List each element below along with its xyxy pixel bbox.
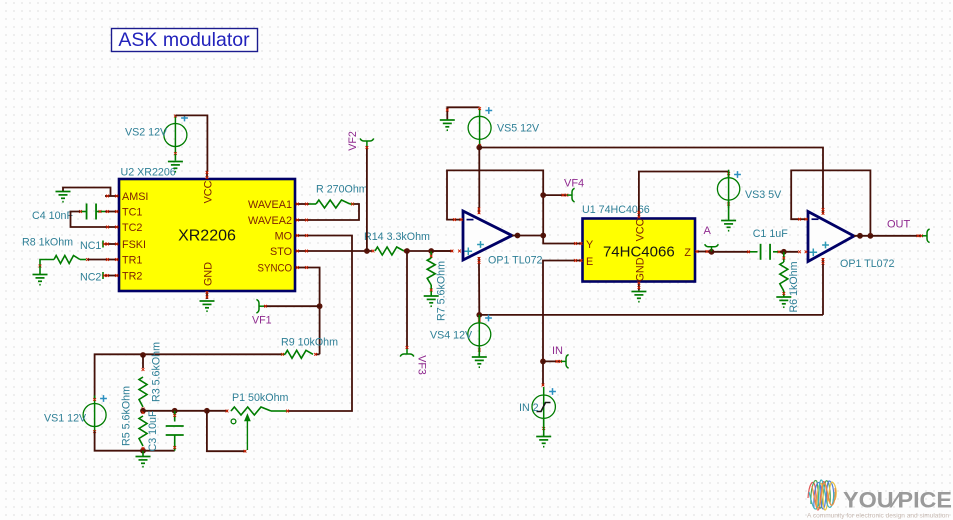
ground VS4 <box>472 357 487 367</box>
wire STO <box>309 250 372 252</box>
svg-text:Y: Y <box>586 239 593 251</box>
svg-text:VCC: VCC <box>203 180 215 203</box>
wire top rail to VS1 <box>95 354 143 399</box>
svg-text:TC2: TC2 <box>122 222 142 234</box>
wire opamp1 vee down <box>478 264 480 315</box>
probe IN <box>561 355 569 369</box>
wire VS5 gnd link <box>447 107 479 119</box>
svg-text:R6 1kOhm: R6 1kOhm <box>788 261 800 312</box>
wire OUT <box>870 235 921 237</box>
wire WAVEA1 to WAVEA2 <box>309 204 359 220</box>
probe VF4 <box>567 188 575 202</box>
resistor R6 <box>780 262 788 291</box>
plus VS4 <box>485 315 492 322</box>
wire R8 left to ground <box>40 260 54 267</box>
probe VF1 <box>256 299 264 313</box>
opamp2 vee pin <box>822 258 824 265</box>
svg-text:VF1: VF1 <box>252 315 272 327</box>
wire AMSI to ground <box>63 188 111 197</box>
wire R6 top lead <box>783 252 785 262</box>
svg-text:WAVEA1: WAVEA1 <box>248 199 292 211</box>
opamp2 minus stub <box>798 218 808 220</box>
node R7 top <box>428 248 434 254</box>
node opamp2 out <box>868 233 874 239</box>
wire C4 left to TC2 <box>80 211 87 213</box>
pin TC1 stub <box>105 211 119 213</box>
node VS5 out <box>476 145 482 151</box>
wire C4 right lead <box>96 211 105 213</box>
wire Z to C1 <box>712 251 751 253</box>
svg-text:GND: GND <box>634 257 646 281</box>
ground U2 GND <box>200 301 215 311</box>
opamp1 vee pin <box>478 257 480 264</box>
wire R3 top lead <box>142 355 144 368</box>
pin TR2 stub <box>105 275 119 277</box>
capacitor C4 <box>87 204 97 220</box>
wire VS2 minus <box>174 154 176 161</box>
node bottom ground <box>140 448 146 454</box>
ground VS5 <box>440 120 455 130</box>
source VS3 <box>717 178 739 200</box>
P1 circle mark <box>231 419 236 424</box>
svg-text:R14 3.3kOhm: R14 3.3kOhm <box>364 231 430 243</box>
probe A <box>705 244 719 252</box>
wire C3 top lead <box>174 411 176 422</box>
svg-text:U2 XR2206: U2 XR2206 <box>121 167 176 179</box>
plus IN2 <box>549 388 556 395</box>
pin WAVEA1 stub <box>295 203 309 205</box>
plus VS5 <box>485 107 492 114</box>
svg-text:E: E <box>586 256 593 268</box>
svg-text:VS3 5V: VS3 5V <box>745 189 782 201</box>
pin GND stub U2 <box>206 291 208 299</box>
node IN <box>540 359 546 365</box>
wire VF1 <box>264 305 320 307</box>
wire opamp2 vee down <box>822 264 824 315</box>
pin VCC U1 <box>638 211 640 219</box>
pin AMSI stub <box>105 195 119 197</box>
wire feedback2 <box>791 170 870 235</box>
wire SYNCO down <box>309 268 320 355</box>
svg-text:OUT: OUT <box>887 219 911 231</box>
pin STO stub <box>295 250 309 252</box>
resistor R5 <box>139 416 147 446</box>
svg-text:C3 10uF: C3 10uF <box>147 410 159 451</box>
node A <box>709 249 715 255</box>
svg-text:NC1: NC1 <box>80 240 101 252</box>
svg-text:SYNCO: SYNCO <box>258 263 293 275</box>
opamp1 output dot <box>515 233 521 239</box>
resistor R 270Ohm <box>316 200 350 208</box>
opamp2 output dot <box>857 233 863 239</box>
wire VS1 bottom <box>95 431 175 451</box>
wire IN2 minus <box>543 419 545 437</box>
wire feedback1 <box>447 170 543 235</box>
potentiometer P1 <box>231 407 271 415</box>
wire P1 wiper loop <box>207 411 246 451</box>
P1 wiper <box>245 415 250 450</box>
node chain top <box>140 352 146 358</box>
wire positive rail <box>479 148 823 209</box>
pin WAVEA2 stub <box>295 219 309 221</box>
op-amp OP1a TL072 <box>463 211 512 260</box>
youspice logo <box>805 474 953 520</box>
node VS4 top <box>476 312 482 318</box>
svg-text:C1 1uF: C1 1uF <box>753 228 789 240</box>
svg-text:VF4: VF4 <box>564 178 584 190</box>
opamp2 plus sign <box>810 249 818 257</box>
ground R7 <box>424 296 439 306</box>
resistor R7 <box>427 258 435 285</box>
wire opamp1 out <box>512 235 543 237</box>
svg-text:OP1 TL072: OP1 TL072 <box>840 258 895 270</box>
wire R14 to opamp <box>404 250 453 252</box>
plus VS1 <box>100 395 107 402</box>
terminal marks VS1 <box>93 398 96 401</box>
svg-text:FSKI: FSKI <box>122 239 146 251</box>
node SYNCO-VF1 <box>317 303 323 309</box>
VS3 bottom mark <box>727 203 730 206</box>
capacitor C1 <box>761 244 771 260</box>
wire VS4 minus <box>478 346 480 357</box>
svg-text:XR2206: XR2206 <box>178 228 236 245</box>
ground VS1 rail <box>136 457 151 467</box>
wire R8 right <box>80 259 86 261</box>
svg-text:C4 10nF: C4 10nF <box>32 210 73 222</box>
resistor R8 <box>54 256 80 264</box>
svg-text:A: A <box>704 225 712 237</box>
source IN 2 <box>532 395 555 418</box>
op-amp OP1b TL072 <box>808 212 854 262</box>
opamp2 minus sign <box>812 218 819 220</box>
svg-text:R3 5.6kOhm: R3 5.6kOhm <box>151 342 163 402</box>
ground VS3 <box>721 221 736 231</box>
ground IN2 <box>536 437 551 447</box>
opamp1 minus sign <box>467 219 474 221</box>
node P1 branch <box>204 408 210 414</box>
pin MO stub <box>295 235 309 237</box>
R3 bottom mark <box>142 407 145 410</box>
wire IN probe <box>543 360 560 362</box>
wire R6 bottom <box>783 291 785 297</box>
svg-text:MO: MO <box>275 231 292 243</box>
wire R270 leads <box>309 203 316 205</box>
svg-text:OP1 TL072: OP1 TL072 <box>488 255 543 267</box>
probe VF2 <box>360 138 374 146</box>
plus VS3 <box>734 171 741 178</box>
R14 marks <box>372 250 375 253</box>
svg-text:VF3: VF3 <box>416 355 428 375</box>
opamp1 plus sign2 <box>477 241 484 248</box>
probe OUT <box>922 229 930 243</box>
svg-text:TR2: TR2 <box>122 271 142 283</box>
ground U1 <box>631 292 646 302</box>
svg-text:P1 50kOhm: P1 50kOhm <box>232 392 289 404</box>
wire MO to P1 <box>288 236 352 412</box>
VS4 stub <box>478 315 480 323</box>
wire C1 to opamp2 <box>780 251 798 253</box>
pin GND U1 <box>638 282 640 291</box>
wire IN2 top <box>542 361 544 386</box>
logo scribble ball <box>808 480 836 510</box>
wire P1 left <box>207 410 228 412</box>
svg-text:WAVEA2: WAVEA2 <box>248 215 292 227</box>
wire VS5 to opamp1 <box>478 148 480 208</box>
opamp2 plus stub <box>798 250 801 253</box>
pin TC2 stub <box>105 226 119 228</box>
wire VS3 minus <box>728 200 730 220</box>
svg-text:Z: Z <box>684 247 691 259</box>
wire R9 right <box>315 353 320 355</box>
source VS2 <box>164 124 187 147</box>
opamp2 vcc pin <box>822 208 824 215</box>
svg-text:IN: IN <box>552 345 563 357</box>
ground R8 <box>33 275 48 285</box>
terminal marks VS2 <box>174 115 177 118</box>
svg-text:R9 10kOhm: R9 10kOhm <box>281 337 338 349</box>
node VF4 <box>540 192 546 198</box>
NC1 symbol <box>102 241 104 248</box>
VS4 bottom mark <box>478 349 481 352</box>
svg-text:VS4 12V: VS4 12V <box>430 330 473 342</box>
svg-text:TC1: TC1 <box>122 207 142 219</box>
IN2 bottom mark <box>542 427 545 430</box>
wire negative rail <box>479 314 823 316</box>
source VS1 <box>83 404 106 427</box>
svg-text:IN 2: IN 2 <box>519 402 539 414</box>
svg-text:VS5 12V: VS5 12V <box>497 123 540 135</box>
pin Z stub <box>695 251 709 253</box>
opamp1 minus stub <box>453 219 463 221</box>
wire VF3 <box>406 251 408 349</box>
node opamp1 out <box>540 233 546 239</box>
svg-text:A community for electronic des: A community for electronic design and si… <box>807 513 949 520</box>
svg-text:R7 5.6kOhm: R7 5.6kOhm <box>436 261 448 321</box>
wire U1 VCC to VS3 <box>639 172 729 212</box>
wire out to Y <box>543 236 574 244</box>
pin VCC stub U2 <box>206 171 208 179</box>
svg-text:GND: GND <box>203 262 215 286</box>
R5 marks <box>142 411 145 414</box>
pin FSKI stub <box>105 243 119 245</box>
svg-text:NC2: NC2 <box>80 272 101 284</box>
ground VS2 <box>168 162 183 172</box>
svg-text:VS1 12V: VS1 12V <box>44 413 87 425</box>
svg-text:VF2: VF2 <box>347 131 359 151</box>
NC2 symbol <box>102 272 104 279</box>
wire VS2 plus to VCC <box>174 114 176 116</box>
pin Y stub <box>574 243 583 245</box>
node STO-VF2 <box>364 248 370 254</box>
IN2 waveform glyph <box>537 403 551 412</box>
svg-text:YOU⁄PICE: YOU⁄PICE <box>843 488 952 513</box>
resistor R9 <box>285 350 313 358</box>
probe VF3 <box>400 349 414 357</box>
svg-text:STO: STO <box>270 246 292 258</box>
svg-text:VS2 12V: VS2 12V <box>125 127 168 139</box>
svg-text:VCC: VCC <box>634 218 646 241</box>
resistor R3 <box>139 377 147 407</box>
svg-text:ASK modulator: ASK modulator <box>118 29 250 51</box>
wire VF2 <box>366 146 368 251</box>
wire R7 bottom <box>430 285 432 296</box>
pin TR1 stub <box>105 259 119 261</box>
wire mid rail <box>143 410 207 412</box>
capacitor C3 <box>166 426 184 435</box>
VS5 marks <box>478 107 481 110</box>
svg-text:R 270Ohm: R 270Ohm <box>316 184 368 196</box>
wire opamp1 plus input <box>431 250 453 252</box>
IC U1 74HC4066 body <box>583 219 696 282</box>
wire gnd stub <box>142 451 144 456</box>
wire VF4 <box>543 194 566 196</box>
svg-text:TR1: TR1 <box>122 255 142 267</box>
node C3 top <box>172 408 178 414</box>
node R6 top <box>781 249 787 255</box>
resistor R14 <box>375 247 404 255</box>
node mid rail left <box>140 408 146 414</box>
wire R9 left <box>281 353 285 355</box>
plus VS2 <box>181 115 188 122</box>
P1 right lead <box>271 410 287 412</box>
wire R7 top lead <box>430 251 432 258</box>
svg-text:R5 5.6kOhm: R5 5.6kOhm <box>121 386 133 446</box>
pin SYNCO stub <box>295 267 309 269</box>
svg-text:AMSI: AMSI <box>122 191 148 203</box>
source VS4 <box>468 323 491 346</box>
wire C1 leads <box>750 251 758 253</box>
title box <box>112 29 258 52</box>
wire C3 bottom lead <box>174 435 176 451</box>
opamp1 vcc pin <box>478 207 480 214</box>
wire E to IN <box>543 261 574 362</box>
svg-text:R8 1kOhm: R8 1kOhm <box>22 237 73 249</box>
pin E stub <box>574 260 583 262</box>
source VS5 <box>468 116 491 139</box>
IC U2 XR2206 body <box>119 179 295 291</box>
opamp2 plus sign2 <box>822 242 829 249</box>
ground AMSI <box>56 192 71 202</box>
opamp1 plus sign <box>465 248 473 256</box>
ground R6 <box>776 297 791 307</box>
wire opamp2 out <box>854 235 870 237</box>
node R14 out <box>404 248 410 254</box>
